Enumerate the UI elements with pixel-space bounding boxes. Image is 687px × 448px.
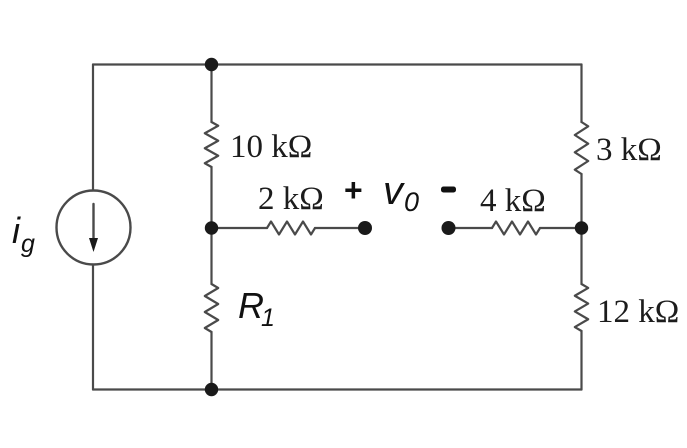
svg-text:0: 0: [404, 187, 419, 217]
wire 2k to terminal a: [315, 227, 365, 229]
resistor 10 kOhm: [205, 122, 218, 167]
svg-text:12 kΩ: 12 kΩ: [597, 294, 679, 330]
svg-text:4 kΩ: 4 kΩ: [480, 183, 546, 219]
wire left lower: [92, 265, 94, 390]
wire 4k to right node: [540, 227, 582, 229]
wire right upper: [580, 65, 582, 123]
wire left upper: [92, 65, 94, 191]
wire right lower: [580, 331, 582, 390]
svg-text:3 kΩ: 3 kΩ: [596, 132, 662, 168]
svg-text:1: 1: [261, 304, 275, 332]
terminal node a (v0 +): [358, 221, 372, 235]
resistor 12 kOhm: [575, 284, 588, 331]
resistor 3 kOhm: [575, 122, 588, 174]
current source arrow head: [89, 238, 98, 252]
node top: [205, 58, 218, 71]
wire terminal b to 4k: [449, 227, 493, 229]
wire middle branch upper: [210, 65, 212, 123]
current source ig circle: [57, 191, 131, 265]
resistor R1: [205, 284, 218, 332]
svg-text:v: v: [383, 169, 405, 213]
wire bottom: [93, 388, 582, 390]
resistor 4 kOhm: [492, 222, 540, 235]
svg-text:i: i: [12, 210, 21, 251]
wire middle branch lower: [210, 332, 212, 390]
svg-text:10 kΩ: 10 kΩ: [230, 129, 312, 165]
wire top: [93, 63, 582, 65]
node bottom: [205, 383, 218, 396]
wire right mid: [580, 174, 582, 284]
svg-text:2 kΩ: 2 kΩ: [258, 181, 324, 217]
terminal node b (v0 -): [442, 221, 456, 235]
label minus sign: [441, 187, 456, 193]
current source arrow shaft: [92, 204, 94, 240]
node middle-left: [205, 221, 218, 234]
resistor 2 kOhm: [267, 222, 315, 235]
svg-text:g: g: [21, 230, 35, 258]
wire middle branch mid: [210, 167, 212, 284]
node middle-right: [575, 221, 588, 234]
svg-text:+: +: [344, 172, 363, 208]
wire node to 2k: [212, 227, 268, 229]
